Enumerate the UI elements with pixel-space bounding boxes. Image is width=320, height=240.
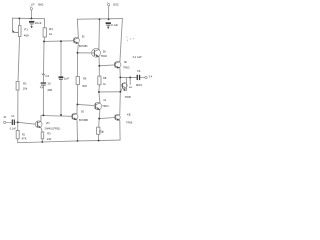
svg-text:90: 90 (103, 50, 106, 54)
wire input line to Q1 base (18, 122, 36, 124)
svg-text:IN: IN (4, 115, 7, 119)
potentiometer P1 body (18, 26, 21, 37)
wire C3 branch lower to row2 (60, 80, 62, 115)
node C3 top row1 (60, 40, 62, 42)
node input junction (17, 121, 19, 123)
terminal G02 (107, 2, 110, 6)
resistor R10 body (97, 127, 100, 134)
potentiometer wiper arrowhead (12, 30, 14, 33)
svg-text:TR03: TR03 (123, 66, 130, 70)
transistor Q4 TR03 (114, 61, 121, 68)
transistor Q5 TR05 (122, 83, 128, 91)
svg-text:10: 10 (47, 82, 51, 86)
svg-text:22uF: 22uF (35, 21, 42, 25)
node output Q4 emitter (119, 76, 121, 78)
node Q5 base row3 (119, 91, 121, 93)
wire Q5 emitter riser (125, 77, 127, 90)
wire G02 terminal drop (108, 6, 110, 19)
wire pot top lead (18, 18, 20, 25)
svg-text:B01: B01 (38, 3, 44, 7)
svg-text:BC548B: BC548B (79, 119, 88, 122)
svg-text:2N: 2N (46, 121, 49, 125)
svg-text:2N4401(TR01): 2N4401(TR01) (45, 127, 61, 130)
node R3 on bottom rail (41, 141, 43, 143)
capacitor C6 output (137, 75, 141, 80)
svg-text:sw: sw (129, 86, 132, 89)
wire R3 to bottom rail (41, 139, 43, 142)
wire Q2b emitter to bottom rail (76, 120, 79, 141)
potentiometer P1 wiper arrow (14, 31, 19, 33)
battery terminal LP B01 (30, 6, 33, 10)
svg-text:MW1: MW1 (136, 83, 143, 87)
wire Q6 base feed (99, 118, 115, 119)
svg-text:1uF: 1uF (64, 77, 69, 81)
wire right supply rail (77, 18, 122, 21)
svg-text:240: 240 (47, 137, 52, 141)
svg-text:KB: KB (127, 113, 131, 117)
svg-text:Rb: Rb (99, 130, 103, 134)
svg-text:TR05: TR05 (125, 95, 132, 99)
wire Q3 collector riser (98, 19, 101, 49)
transistor Q4m TR04 (94, 102, 101, 109)
wire R10 to bottom rail (97, 134, 99, 140)
wire Q4m emitter drop (98, 110, 101, 119)
svg-text:BC548b: BC548b (79, 45, 88, 48)
svg-text:TR06: TR06 (126, 121, 133, 125)
svg-text:R3: R3 (47, 131, 51, 135)
svg-text:P1: P1 (24, 27, 28, 31)
svg-text:47K: 47K (22, 137, 27, 141)
capacitor C3 1uF (59, 76, 64, 79)
wire node row1 to Q2 base (44, 40, 74, 43)
svg-text:TR04: TR04 (102, 104, 109, 108)
svg-text:9b: 9b (124, 60, 127, 64)
svg-text:C6: C6 (137, 69, 141, 73)
node Q3 emitter branch (98, 65, 100, 67)
resistor R2 body (16, 130, 19, 138)
wire C6 to output terminal (140, 77, 145, 79)
capacitor C1 0.1uF input (6, 120, 18, 126)
wire Q2 emitter drop (77, 43, 80, 52)
svg-text:400: 400 (47, 88, 52, 92)
wire rail left corner down to pot wiper (11, 18, 13, 30)
transistor Q2b (72, 113, 78, 120)
wire Q2 emitter chain to R6 (77, 53, 79, 77)
node C4 bottom row2 (42, 114, 44, 116)
svg-text:LP: LP (31, 3, 35, 7)
svg-text:R1: R1 (23, 82, 27, 86)
wire node to Q2b collector (76, 104, 78, 113)
output terminal SLR (145, 76, 147, 78)
wire input node down to R2 (17, 122, 19, 130)
wire row2 Q1 collector to Q2b base (41, 115, 72, 118)
node G02 on rail (108, 18, 110, 20)
wire bottom rail (18, 140, 120, 143)
node battery on rail (31, 18, 33, 20)
wire R8 to node (98, 85, 101, 92)
transistor Q6 TR06 (115, 115, 121, 121)
svg-text:R4: R4 (49, 27, 53, 31)
wire R2 to bottom rail (17, 139, 19, 143)
svg-text:6K8: 6K8 (82, 84, 87, 88)
wire output row (120, 76, 136, 78)
wire Q3 emitter drop (98, 57, 100, 66)
node R4 bottom row1 (43, 40, 45, 42)
node Q2 emitter branch (77, 52, 79, 54)
capacitor C5 0.1uF (106, 22, 111, 29)
capacitor C2 22uF (29, 21, 34, 29)
wire Q1 collector riser (40, 116, 42, 122)
svg-text:C4: C4 (45, 74, 49, 78)
svg-text:10k: 10k (23, 87, 28, 91)
svg-text:C1: C1 (11, 114, 15, 118)
resistor R8 body (98, 76, 101, 85)
wire R1 to input node (17, 90, 19, 122)
wire Q4m emitter to R10 (98, 119, 101, 128)
transistor Q3 TR02 (92, 48, 101, 57)
wire output stub below node (129, 77, 131, 84)
svg-text:1k: 1k (49, 32, 53, 36)
wire Q6 collector riser (119, 77, 122, 114)
svg-text:50: 50 (81, 110, 84, 114)
wire C4 branch upper (42, 41, 45, 82)
node Q3 collector on rail (99, 18, 101, 20)
resistor R1 body (16, 82, 19, 91)
resistor R3 body (41, 132, 44, 139)
transistor Q1 TR01 (35, 121, 42, 128)
wire Q4m base feed (77, 104, 94, 105)
wire R6 to node (76, 85, 78, 105)
wire Q3 emitter to R8 (98, 66, 100, 76)
wire Q4m collector riser (99, 92, 100, 103)
svg-text:0.1uF: 0.1uF (111, 23, 118, 27)
wire Q6 emitter drop to rail corner (119, 120, 121, 140)
wire R4 bottom to node row1 (43, 37, 46, 41)
wire Q4 base feed (99, 64, 114, 67)
node R6 bottom branch (76, 103, 78, 105)
node R10 on bottom rail (98, 140, 100, 142)
svg-text:40K: 40K (24, 33, 29, 37)
wire top-left supply rail (12, 17, 44, 20)
transistor Q2 (73, 37, 79, 43)
svg-text:1k: 1k (103, 82, 106, 86)
wire row3 to Q5 base node (99, 91, 121, 93)
node output stub (129, 76, 131, 78)
node Q2b emitter on bottom rail (77, 140, 79, 142)
svg-text:R8: R8 (103, 76, 107, 80)
resistor R6 body (76, 77, 79, 85)
svg-text:R6: R6 (83, 77, 87, 81)
wire pot bottom to R1 (18, 37, 20, 82)
wire Q4 emitter drop to output node (119, 68, 121, 77)
wire C3 branch upper (60, 41, 62, 76)
svg-text:3,4 mW: 3,4 mW (133, 55, 142, 59)
capacitor C4 10/400 (40, 73, 46, 88)
svg-text:1k: 1k (103, 98, 106, 102)
input terminal IN (3, 121, 5, 123)
wire C4 branch lower to row2 (42, 86, 44, 116)
wire R4 branch from rail (43, 19, 45, 28)
svg-text:TR02: TR02 (101, 54, 108, 58)
svg-text:0.1uF: 0.1uF (10, 128, 17, 131)
wire Q5 base lead (121, 88, 123, 92)
svg-text:3.4: 3.4 (149, 74, 153, 78)
node pot top on rail (19, 18, 21, 20)
svg-text:G02: G02 (113, 3, 119, 7)
wire Q1 emitter to R3 (41, 128, 42, 133)
wire battery terminal drop (30, 10, 32, 19)
svg-text:92: 92 (82, 35, 85, 39)
resistor R4 body (43, 28, 46, 37)
node R8 bottom row3 (98, 91, 100, 93)
junction node dots (17, 18, 131, 143)
node Q4m emitter branch (98, 118, 100, 120)
node C3 bottom row2 (60, 114, 62, 116)
dust specks (127, 37, 134, 41)
wire Q4 collector riser to rail corner (120, 19, 123, 62)
wire Q3 base feed (78, 52, 95, 54)
wire Q2 collector riser to right rail (77, 19, 78, 38)
